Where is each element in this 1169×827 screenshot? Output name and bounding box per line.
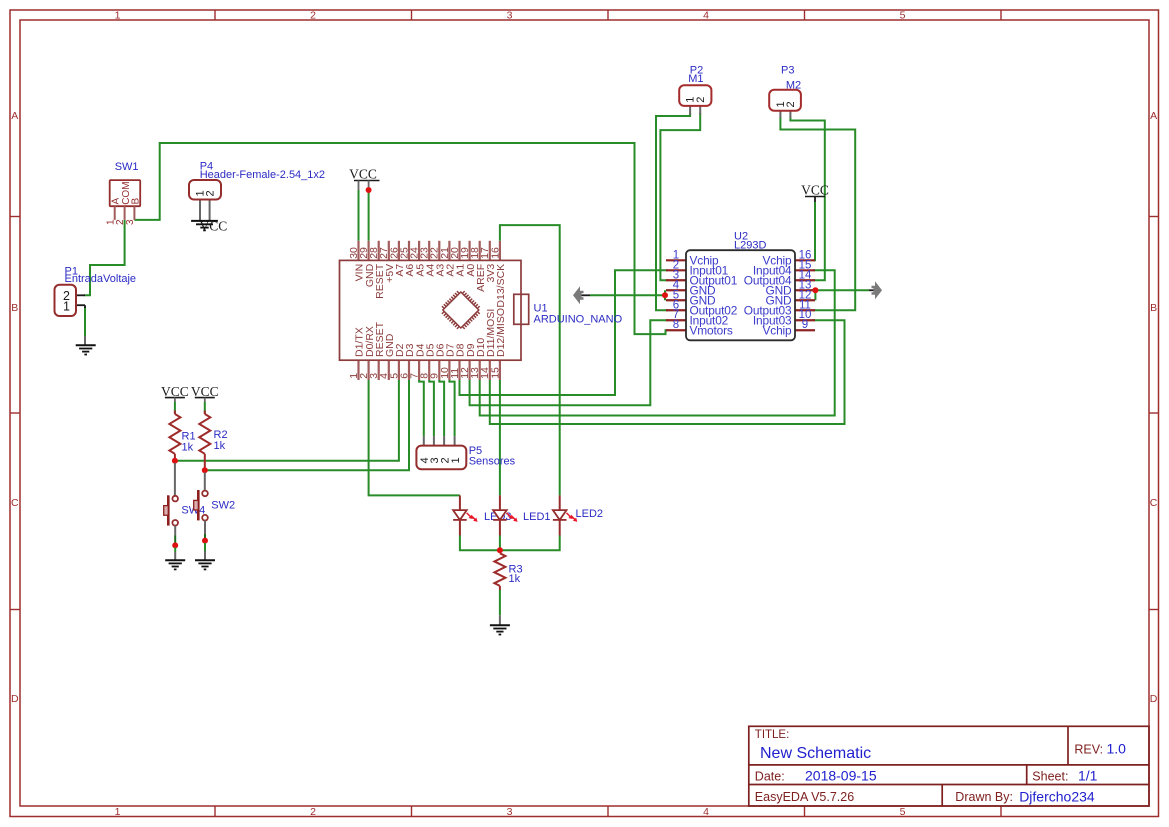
wire VCC flag to U2 pin16 Vchip — [814, 197, 816, 203]
svg-text:REV:: REV: — [1074, 743, 1103, 757]
wire R1 junction to U1 D2 — [175, 380, 399, 461]
wire SW2 to ground — [204, 520, 206, 534]
connector P4 Header-Female — [189, 161, 325, 221]
wire R2 junction to U1 D3 — [205, 380, 409, 470]
wire VCC to U1 pin30 VIN — [358, 190, 360, 241]
svg-text:1k: 1k — [182, 442, 194, 454]
svg-text:Sheet:: Sheet: — [1032, 769, 1068, 783]
wire R3 to ground — [499, 590, 501, 615]
wire U1 D13/SCK to LED2 — [500, 225, 560, 495]
wire U1 D6 to P5 pin2 — [439, 380, 444, 436]
svg-text:2: 2 — [310, 9, 316, 21]
svg-text:2: 2 — [695, 97, 707, 103]
U2 labels — [734, 230, 766, 251]
svg-text:Drawn By:: Drawn By: — [955, 790, 1013, 804]
svg-text:D: D — [11, 693, 19, 705]
wire U1 D8 to U2 pin2 Input01 — [460, 270, 669, 395]
svg-text:Vmotors: Vmotors — [690, 324, 733, 338]
svg-text:2: 2 — [310, 806, 316, 818]
U1 center IC diamond — [442, 291, 480, 329]
svg-text:2018-09-15: 2018-09-15 — [805, 767, 877, 783]
connector P1 EntradaVoltaje — [55, 266, 137, 317]
frame row letters left — [11, 110, 19, 705]
svg-text:8: 8 — [673, 319, 679, 331]
wire U1 D0/RX to LED3 — [369, 380, 460, 495]
resistor R1 — [174, 411, 176, 415]
svg-text:EasyEDA V5.7.26: EasyEDA V5.7.26 — [755, 790, 854, 804]
ground under SW4 — [165, 559, 185, 561]
LED LED1 — [499, 495, 501, 510]
svg-text:3: 3 — [507, 9, 513, 21]
svg-text:1: 1 — [63, 300, 70, 314]
title block texts — [755, 729, 1126, 805]
frame column numbers bottom — [115, 806, 906, 818]
svg-text:B: B — [130, 198, 141, 205]
wire U1 D7 to P5 pin1 — [449, 380, 454, 436]
node junction below SW4 — [172, 542, 178, 548]
svg-text:SW1: SW1 — [115, 161, 139, 173]
svg-text:1: 1 — [115, 806, 121, 818]
svg-text:1k: 1k — [214, 440, 226, 452]
node junction R2/D3 — [202, 467, 208, 473]
svg-text:SW2: SW2 — [211, 500, 235, 512]
svg-text:B: B — [11, 302, 18, 314]
node junction U2 pin13 GND — [812, 287, 818, 293]
svg-text:D12/MISO: D12/MISO — [495, 308, 507, 357]
wire U1 D9 to U2 pin7 Input02 — [470, 320, 668, 405]
svg-text:Date:: Date: — [755, 769, 785, 783]
wire R1 junction to SW4 — [174, 463, 176, 496]
wire R2 junction to SW2 — [204, 473, 206, 492]
svg-text:16: 16 — [489, 247, 501, 259]
pushbutton SW2 — [202, 491, 208, 497]
frame column numbers top — [115, 9, 906, 21]
connector P3 M2 — [769, 65, 801, 119]
svg-text:1.0: 1.0 — [1107, 741, 1127, 757]
wire U2 pins4/5 GND to left ground arrow — [664, 290, 666, 300]
svg-text:1k: 1k — [509, 573, 521, 585]
svg-text:2: 2 — [204, 190, 216, 196]
resistor R2 — [204, 411, 206, 415]
switch SW1 — [105, 161, 141, 225]
wire VCC to U1 pin29 GND — [368, 190, 370, 241]
wire SW1 pin2 to P1 pin2 — [84, 220, 125, 295]
svg-text:A: A — [1150, 110, 1157, 122]
svg-text:EntradaVoltaje: EntradaVoltaje — [65, 273, 137, 285]
svg-text:B: B — [1150, 302, 1157, 314]
U1 labels — [534, 302, 623, 325]
node junction R1/D2 — [172, 458, 178, 464]
svg-text:15: 15 — [489, 367, 501, 379]
ground under R3 — [490, 624, 510, 626]
resistor R3 — [494, 553, 505, 586]
svg-text:4: 4 — [703, 9, 709, 21]
wire SW1 pin3 to U2 pin8 Vmotors — [134, 143, 668, 334]
svg-text:5: 5 — [900, 806, 906, 818]
svg-text:Djfercho234: Djfercho234 — [1019, 788, 1095, 804]
wire VCC to R2 — [204, 402, 206, 414]
wire U1 D11 to U2 pin10 Input03 — [490, 320, 845, 424]
wire P2 pin1 to U2 pin6 Output02 — [656, 113, 690, 310]
ground arrow left of U2 — [573, 286, 584, 304]
svg-text:M2: M2 — [786, 79, 801, 91]
ground under P1 — [76, 344, 96, 346]
svg-text:TITLE:: TITLE: — [755, 729, 790, 741]
svg-text:M1: M1 — [688, 73, 703, 85]
svg-text:4: 4 — [703, 806, 709, 818]
ground under SW2 — [195, 559, 215, 561]
node junction U2 pins4/5 GND — [662, 292, 668, 298]
IC U2 L293D — [666, 249, 815, 340]
svg-text:C: C — [1150, 497, 1158, 509]
svg-text:5: 5 — [900, 9, 906, 21]
wire P3 pin2 to U2 pin14 Output04 — [790, 117, 824, 280]
net flag VCC under P4 (ground-style bars) — [191, 219, 227, 234]
wire P1 pin1 to ground — [84, 307, 86, 336]
svg-text:VCC: VCC — [349, 166, 377, 181]
ground arrow right of U2 — [872, 281, 883, 299]
wire SW4 to ground — [174, 526, 176, 536]
connector P5 Sensores — [416, 436, 515, 469]
wire P3 pin1 to U2 pin11 Output03 — [780, 117, 855, 310]
connector P2 M1 — [679, 65, 711, 115]
svg-text:2: 2 — [785, 101, 797, 107]
svg-text:D13/SCK: D13/SCK — [495, 264, 507, 308]
title block — [749, 726, 1149, 806]
svg-text:1/1: 1/1 — [1078, 767, 1098, 783]
IC U1 ARDUINO_NANO — [340, 241, 522, 380]
power flag VCC above U2 — [801, 182, 829, 197]
pushbutton SW4 — [172, 496, 178, 502]
LED LED3 — [459, 495, 461, 510]
frame row letters right — [1150, 110, 1158, 705]
node junction LED bus / R3 — [497, 547, 503, 553]
wire U1 D5 to P5 pin3 — [429, 380, 434, 436]
svg-text:Header-Female-2.54_1x2: Header-Female-2.54_1x2 — [200, 169, 325, 181]
svg-text:A: A — [11, 110, 18, 122]
svg-text:L293D: L293D — [734, 240, 766, 252]
svg-text:New Schematic: New Schematic — [760, 745, 871, 762]
power flag VCC above U1 — [349, 166, 379, 190]
node junction at VCC/U1 — [366, 187, 372, 193]
wire U2 pins13/12 GND to right ground arrow — [814, 290, 816, 300]
node junction below SW2 — [202, 538, 208, 544]
svg-text:Vchip: Vchip — [763, 324, 793, 338]
svg-text:Sensores: Sensores — [469, 455, 516, 467]
svg-text:C: C — [11, 497, 19, 509]
svg-text:1: 1 — [115, 9, 121, 21]
svg-text:3: 3 — [125, 219, 136, 225]
wire U1 D10 to U2 pin15 Input04 — [480, 270, 835, 415]
svg-text:9: 9 — [802, 319, 808, 331]
svg-text:D: D — [1150, 693, 1158, 705]
svg-text:VCC: VCC — [200, 219, 228, 234]
svg-text:1: 1 — [450, 457, 462, 463]
svg-text:VCC: VCC — [801, 182, 829, 197]
wire U1 D4 to P5 pin4 — [419, 380, 424, 436]
wire LED cathode bus to R3 — [460, 536, 560, 551]
LED LED2 — [559, 495, 561, 510]
svg-text:LED2: LED2 — [576, 508, 604, 520]
svg-text:3: 3 — [507, 806, 513, 818]
svg-text:ARDUINO_NANO: ARDUINO_NANO — [534, 313, 623, 325]
svg-text:P3: P3 — [781, 65, 794, 77]
wire P2 pin2 to U2 pin3 Output01 — [660, 113, 700, 280]
wire VCC to R1 — [174, 402, 176, 414]
U1 right-edge connector rectangle — [514, 294, 529, 324]
svg-text:LED1: LED1 — [523, 511, 551, 523]
wire U1 D12/MISO to LED1 — [499, 380, 501, 495]
